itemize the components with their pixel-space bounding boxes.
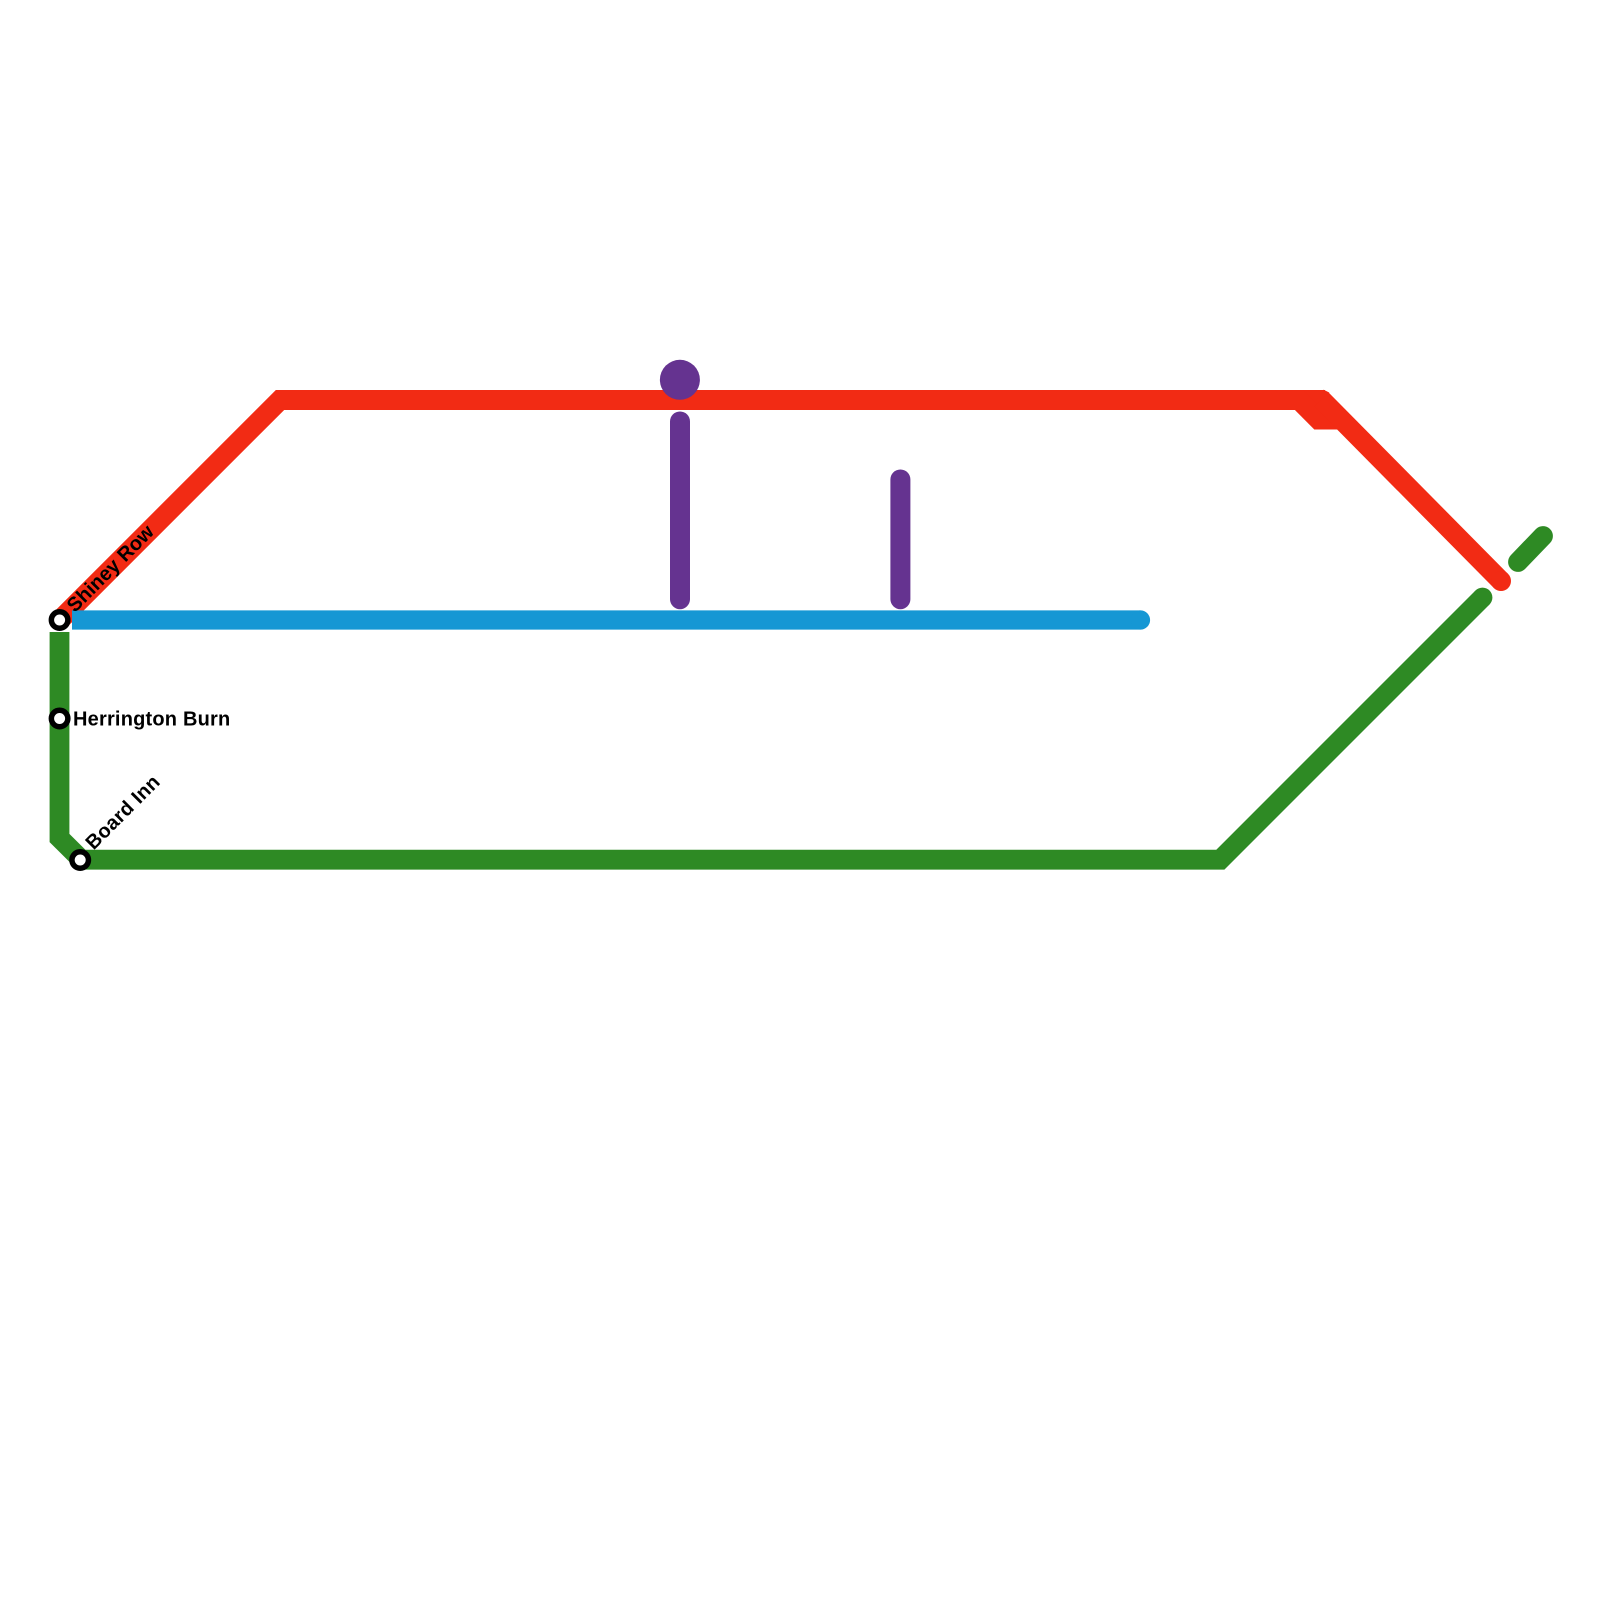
green line: round cap at diagonal top bbox=[1473, 588, 1493, 608]
station Shiney Row bbox=[51, 612, 68, 629]
green line: Shiney Row vertical + bottom horizontal + right diagonal bbox=[60, 598, 1483, 860]
red line: jog filler at step bbox=[1324, 390, 1330, 398]
purple vertical line 2 bbox=[890, 480, 910, 600]
red line: long right diagonal bbox=[1322, 400, 1502, 582]
svg-text:Herrington Burn: Herrington Burn bbox=[73, 708, 230, 730]
blue line: round right cap bbox=[1131, 610, 1150, 629]
blue line bbox=[72, 610, 1141, 629]
purple vertical line 1 bbox=[670, 422, 690, 600]
red line: step stub at right end of horizontal bbox=[1275, 390, 1343, 430]
green line: dashed segment top right bbox=[1518, 536, 1543, 562]
station Board Inn bbox=[72, 852, 89, 869]
red line: Shiney Row diagonal + top horizontal bbox=[60, 400, 1325, 620]
red line: round end cap bbox=[1491, 571, 1511, 591]
station Herrington Burn bbox=[51, 710, 68, 727]
purple interchange circle bbox=[660, 360, 700, 400]
